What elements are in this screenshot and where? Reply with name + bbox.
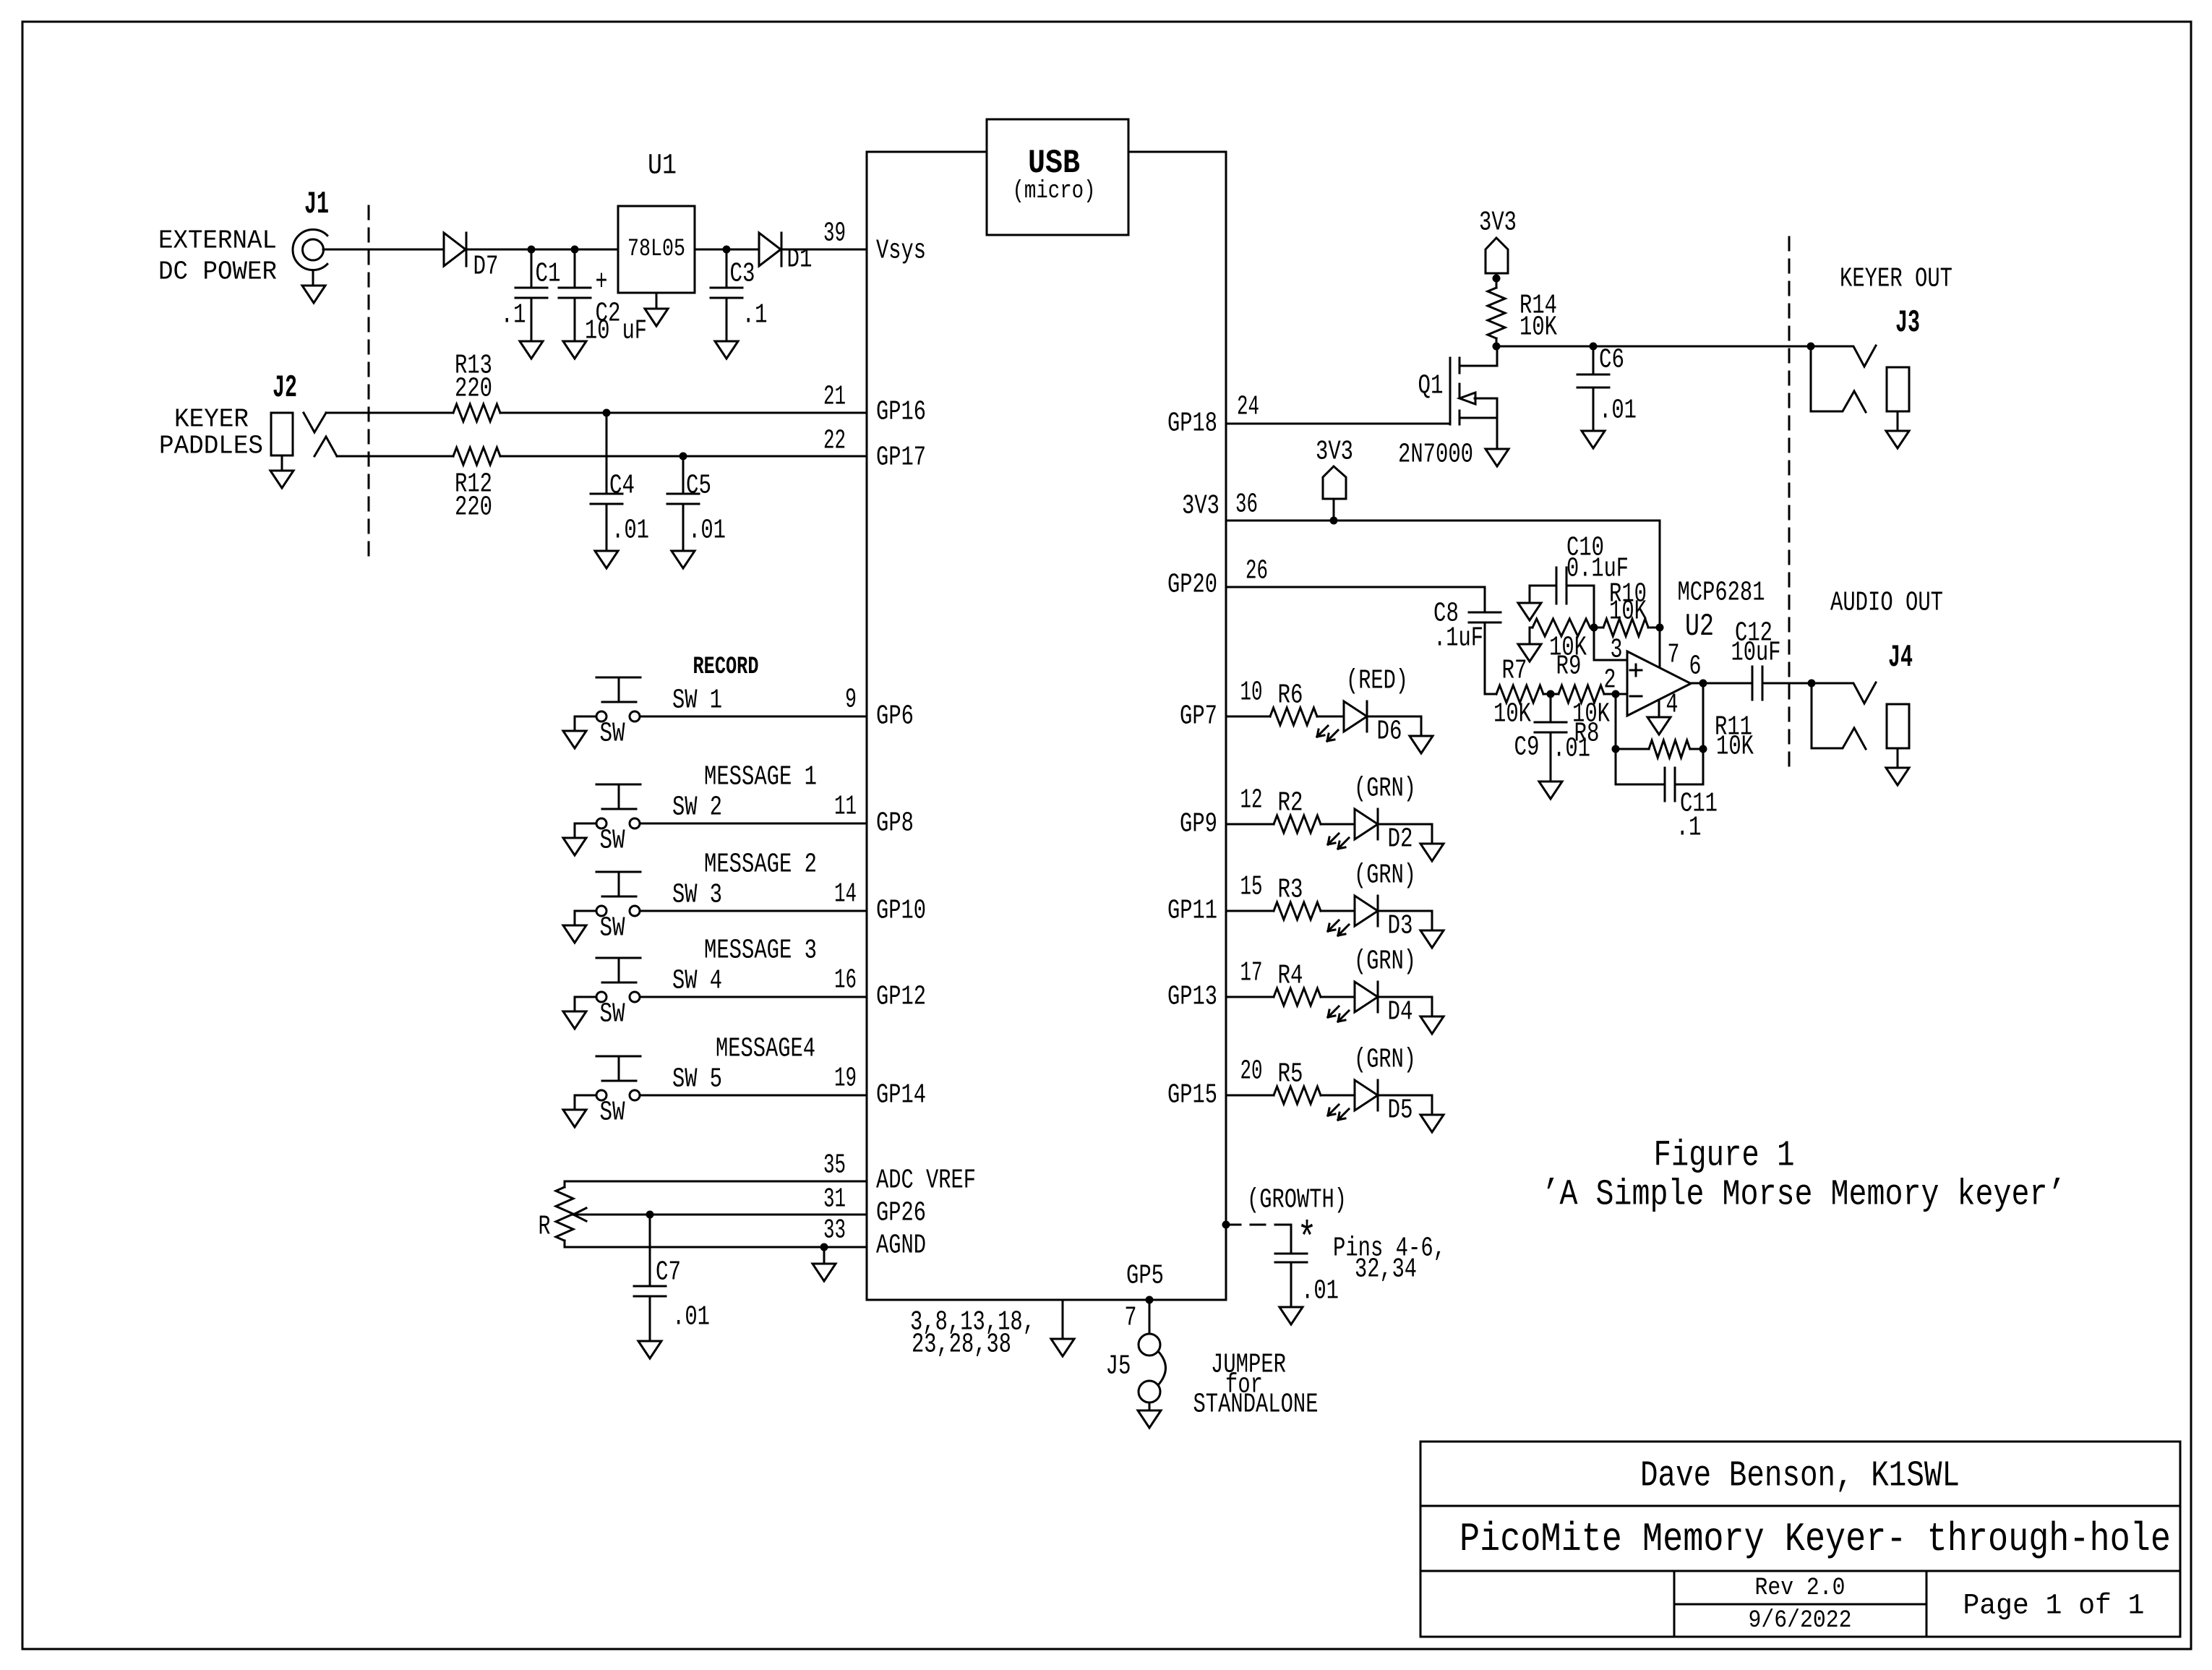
svg-text:D3: D3 [1388, 911, 1413, 942]
connector J2 plug body [271, 413, 293, 455]
ground left of R9 [1518, 628, 1541, 661]
junction node GP5 [1146, 1296, 1154, 1304]
svg-text:GP7: GP7 [1180, 701, 1217, 732]
svg-text:GP18: GP18 [1167, 408, 1217, 440]
connector J2 label [273, 370, 297, 406]
resistor R6 [1270, 680, 1317, 726]
label (GRN) for D4 [1354, 946, 1416, 977]
svg-text:DC POWER: DC POWER [158, 257, 277, 287]
svg-text:10: 10 [1240, 677, 1263, 708]
pin name GP18 [1167, 408, 1217, 440]
label KEYER PADDLES [159, 405, 263, 461]
svg-text:Page 1 of 1: Page 1 of 1 [1963, 1590, 2145, 1623]
junction node C3 [723, 246, 731, 254]
pin number 7 [1668, 640, 1680, 671]
pin number 6 [1689, 651, 1702, 682]
ground under C6 [1582, 431, 1605, 448]
junction node C1 [528, 246, 536, 254]
op-amp U2 [1627, 651, 1691, 716]
svg-text:R: R [539, 1212, 551, 1243]
svg-text:U1: U1 [648, 150, 677, 183]
wire D5 to ground [1378, 1095, 1432, 1115]
label GROWTH [1247, 1185, 1347, 1216]
regulator U1 78L05 box [618, 206, 695, 293]
svg-text:PADDLES: PADDLES [159, 432, 263, 461]
pin name 3V3 [1182, 491, 1219, 522]
wire SW3 to chip [640, 910, 867, 912]
pin number 20 [1240, 1056, 1263, 1087]
resistor R8 [1559, 685, 1610, 750]
svg-text:Figure 1: Figure 1 [1654, 1136, 1795, 1177]
junction node AGND ground [820, 1243, 828, 1251]
wire D7 to U1 [466, 249, 618, 251]
wire D1 to chip pin 39 [781, 249, 867, 251]
LED D3 [1328, 896, 1378, 935]
svg-text:3V3: 3V3 [1182, 491, 1219, 522]
svg-text:R5: R5 [1278, 1059, 1303, 1090]
wire J2 ring to R12 [337, 455, 453, 458]
svg-text:KEYER OUT: KEYER OUT [1840, 264, 1952, 295]
pin number 2 [1604, 665, 1616, 696]
label SW 3 [672, 880, 722, 911]
svg-text:9: 9 [845, 685, 857, 716]
wire AGND [565, 1246, 867, 1249]
svg-text:10K: 10K [1716, 732, 1754, 763]
svg-text:GP9: GP9 [1180, 809, 1217, 840]
svg-text:R9: R9 [1556, 651, 1582, 682]
svg-text:4: 4 [1666, 690, 1679, 721]
label D2 [1388, 824, 1413, 855]
label D3 [1388, 911, 1413, 942]
pin number 39 [823, 218, 846, 249]
wire D6 to ground [1367, 716, 1421, 736]
pin name GP13 [1167, 982, 1217, 1013]
svg-text:(GROWTH): (GROWTH) [1247, 1185, 1347, 1216]
figure caption line 2 [1542, 1175, 2066, 1216]
svg-text:GP26: GP26 [876, 1198, 926, 1229]
svg-text:SW: SW [600, 999, 625, 1030]
svg-text:39: 39 [823, 218, 846, 249]
label SW 1 [672, 685, 722, 716]
pin name Vsys [876, 236, 926, 267]
svg-text:GP17: GP17 [876, 442, 926, 474]
pin number 17 [1240, 958, 1263, 989]
svg-text:3V3: 3V3 [1479, 207, 1517, 239]
svg-text:14: 14 [834, 879, 857, 910]
label D5 [1388, 1095, 1413, 1126]
svg-text:32,34: 32,34 [1355, 1254, 1417, 1285]
svg-text:R6: R6 [1278, 680, 1303, 711]
svg-text:19: 19 [834, 1063, 857, 1095]
svg-text:24: 24 [1237, 392, 1259, 423]
wire SW2 to ground [575, 823, 596, 838]
svg-text:Rev 2.0: Rev 2.0 [1755, 1575, 1846, 1602]
svg-text:SW 1: SW 1 [672, 685, 722, 716]
svg-text:GP16: GP16 [876, 397, 926, 428]
pin name GP14 [876, 1080, 926, 1111]
ground under D5 [1420, 1115, 1444, 1132]
svg-text:0.1uF: 0.1uF [1566, 554, 1629, 585]
ground under D4 [1420, 1016, 1444, 1034]
pin number 12 [1240, 785, 1263, 816]
pushbutton switch SW2 [596, 784, 640, 828]
USB connector box [987, 119, 1128, 235]
pushbutton switch SW4 [596, 958, 640, 1002]
wire D2 to ground [1378, 824, 1432, 844]
pot wiper arrow wire GP26 [573, 1208, 867, 1221]
LED D4 [1328, 982, 1378, 1022]
pin name GP5 [1126, 1261, 1164, 1292]
wire GP5 to J5 [1149, 1300, 1151, 1334]
label MESSAGE4 [716, 1034, 815, 1065]
wire chip to R5 [1226, 1095, 1274, 1097]
pin number 11 [834, 792, 857, 823]
label (GRN) for D2 [1354, 774, 1416, 805]
wire R9 junction to opamp plus [1594, 628, 1627, 660]
USB label [1028, 145, 1080, 182]
wire opamp out to C12 [1691, 682, 1752, 685]
svg-text:GP12: GP12 [876, 982, 926, 1013]
pushbutton switch SW3 [596, 872, 640, 916]
chip ground pins label [910, 1307, 1035, 1361]
label JUMPER for STANDALONE [1193, 1350, 1319, 1421]
ground under J5 [1138, 1403, 1161, 1428]
title block [1420, 1442, 2180, 1637]
connector J4 jack contacts [1812, 682, 1876, 749]
svg-text:(GRN): (GRN) [1354, 946, 1416, 977]
wire R4 to D4 [1321, 996, 1355, 998]
LED D5 [1328, 1080, 1378, 1120]
capacitor C2 [559, 249, 647, 347]
svg-text:SW: SW [600, 826, 625, 857]
svg-text:R2: R2 [1278, 788, 1303, 819]
power symbol 3V3 top [1479, 207, 1517, 274]
svg-text:C7: C7 [656, 1257, 681, 1288]
svg-text:(micro): (micro) [1013, 178, 1096, 205]
svg-text:15: 15 [1240, 872, 1263, 903]
svg-text:.01: .01 [612, 515, 649, 547]
svg-text:J5: J5 [1106, 1351, 1131, 1382]
junction node C6 [1590, 343, 1598, 351]
regulator U1 label [648, 150, 677, 183]
jumper J5 [1139, 1334, 1166, 1403]
chip PicoMite module box [867, 152, 1226, 1300]
svg-text:MESSAGE 1: MESSAGE 1 [704, 762, 817, 793]
pin number 19 [834, 1063, 857, 1095]
svg-text:12: 12 [1240, 785, 1263, 816]
transistor Q1 [1398, 346, 1497, 471]
svg-text:C6: C6 [1599, 345, 1624, 376]
junction node C7 [646, 1211, 654, 1219]
resistor R11 [1616, 683, 1754, 763]
label SW under switch SW4 [600, 999, 625, 1030]
resistor R13 [453, 351, 500, 422]
svg-text:ADC VREF: ADC VREF [876, 1165, 976, 1196]
wire R3 to D3 [1321, 910, 1355, 912]
asterisk marker [1298, 1216, 1317, 1265]
wire R2 to D2 [1321, 823, 1355, 826]
svg-text:10K: 10K [1493, 699, 1531, 730]
ground left of C10 [1518, 586, 1541, 620]
wire chip to R2 [1226, 823, 1274, 826]
svg-text:R3: R3 [1278, 875, 1303, 906]
label SW under switch SW1 [600, 719, 625, 750]
svg-text:KEYER: KEYER [174, 405, 249, 434]
diode D1 [759, 233, 813, 275]
pin name ADC VREF [876, 1165, 976, 1196]
svg-text:23,28,38: 23,28,38 [912, 1329, 1011, 1361]
pin number 3 [1611, 635, 1623, 666]
svg-text:.01: .01 [1301, 1276, 1339, 1307]
label KEYER OUT [1840, 264, 1952, 295]
ground under C9 [1539, 782, 1562, 799]
svg-text:SW 4: SW 4 [672, 966, 722, 997]
svg-text:31: 31 [823, 1184, 846, 1215]
pushbutton switch SW1 [596, 677, 640, 721]
svg-text:D4: D4 [1388, 997, 1413, 1028]
svg-text:C9: C9 [1514, 732, 1540, 763]
wire R5 to D5 [1321, 1095, 1355, 1097]
connector J1 label [304, 187, 329, 223]
wire R13 to chip pin 21 [500, 412, 867, 414]
label MESSAGE 2 [704, 849, 817, 881]
ground under SW1 [563, 731, 586, 748]
svg-text:R8: R8 [1574, 719, 1600, 750]
title block title text [1459, 1516, 2171, 1562]
capacitor C3 [711, 249, 768, 341]
label SW under switch SW5 [600, 1097, 625, 1129]
title block date text [1749, 1607, 1852, 1635]
wire SW4 to chip [640, 996, 867, 998]
ground under C7 [638, 1341, 661, 1358]
pin number 22 [823, 426, 846, 457]
svg-text:*: * [1298, 1216, 1317, 1265]
svg-text:MESSAGE 3: MESSAGE 3 [704, 935, 817, 967]
svg-text:+: + [596, 267, 608, 299]
junction node C2 [571, 246, 579, 254]
svg-text:11: 11 [834, 792, 857, 823]
wire chip to R3 [1226, 910, 1274, 912]
svg-text:36: 36 [1235, 489, 1258, 521]
title block author text [1640, 1456, 1960, 1497]
svg-text:.01: .01 [1599, 395, 1637, 427]
pin number 35 [823, 1150, 846, 1181]
wire U1 to D1 [695, 249, 759, 251]
svg-text:GP10: GP10 [876, 896, 926, 927]
svg-text:D2: D2 [1388, 824, 1413, 855]
ground under SW3 [563, 925, 586, 943]
svg-text:.1uF: .1uF [1433, 623, 1483, 654]
svg-text:GP6: GP6 [876, 701, 914, 732]
svg-text:7: 7 [1668, 640, 1680, 671]
svg-text:STANDALONE: STANDALONE [1193, 1389, 1319, 1421]
svg-text:Dave Benson, K1SWL: Dave Benson, K1SWL [1640, 1456, 1960, 1497]
pin name GP12 [876, 982, 926, 1013]
pin number 24 [1237, 392, 1259, 423]
wire 3V3 rail [1226, 520, 1660, 522]
junction node R11 right [1699, 745, 1707, 753]
ground under C3 [715, 341, 738, 359]
svg-text:3V3: 3V3 [1316, 437, 1353, 468]
capacitor C12 [1731, 618, 1812, 701]
dashed wire GROWTH [1226, 1224, 1291, 1226]
resistor R12 [453, 448, 500, 523]
svg-text:SW: SW [600, 1097, 625, 1129]
capacitor C4 [591, 413, 649, 551]
pin name GP9 [1180, 809, 1217, 840]
pin name AGND [876, 1230, 926, 1262]
svg-text:SW 5: SW 5 [672, 1064, 722, 1095]
capacitor C10 [1530, 533, 1629, 628]
svg-text:26: 26 [1246, 556, 1268, 587]
svg-text:.1: .1 [1676, 813, 1702, 844]
connector J1 barrel jack [293, 230, 327, 270]
dashed partition line right [1788, 237, 1791, 768]
svg-text:D6: D6 [1377, 716, 1402, 748]
svg-text:RECORD: RECORD [693, 654, 759, 681]
pin name GP20 [1167, 570, 1217, 601]
svg-text:EXTERNAL: EXTERNAL [158, 226, 277, 256]
capacitor growth C13 [1275, 1225, 1307, 1307]
capacitor C7 [634, 1215, 710, 1341]
svg-text:SW: SW [600, 719, 625, 750]
junction node C5 on GP17 wire [680, 453, 687, 461]
ground under D3 [1420, 930, 1444, 948]
label SW 2 [672, 792, 722, 823]
ground under C2 [563, 341, 586, 359]
svg-text:220: 220 [455, 374, 492, 405]
junction node pin6 [1699, 680, 1707, 688]
pin number 16 [834, 965, 857, 996]
pin number 4 [1666, 690, 1679, 721]
svg-text:GP20: GP20 [1167, 570, 1217, 601]
pin number 15 [1240, 872, 1263, 903]
svg-text:C3: C3 [730, 259, 755, 290]
junction node J3 [1807, 343, 1815, 351]
capacitor C5 [667, 456, 726, 551]
pin number 33 [823, 1215, 846, 1246]
wire D4 to ground [1378, 997, 1432, 1016]
junction node R7 R8 [1547, 690, 1555, 698]
svg-text:SW 2: SW 2 [672, 792, 722, 823]
pin name GP10 [876, 896, 926, 927]
label EXTERNAL DC POWER [158, 226, 277, 287]
svg-text:GP13: GP13 [1167, 982, 1217, 1013]
svg-text:16: 16 [834, 965, 857, 996]
svg-text:J4: J4 [1888, 640, 1913, 676]
dashed partition line left [368, 206, 370, 565]
svg-text:J3: J3 [1895, 305, 1920, 341]
svg-text:MCP6281: MCP6281 [1678, 578, 1765, 609]
ground under growth cap [1279, 1307, 1303, 1324]
junction node under 3V3 [1493, 273, 1501, 288]
label Pins 4-6 32 34 [1333, 1233, 1446, 1285]
pin name GP11 [1167, 896, 1217, 927]
potentiometer R [539, 1181, 574, 1247]
label RECORD [693, 654, 759, 681]
svg-text:(GRN): (GRN) [1354, 860, 1416, 891]
connector J4 label [1888, 640, 1913, 676]
resistor R5 [1274, 1059, 1321, 1105]
capacitor C9 [1514, 694, 1591, 782]
junction node R10 3V3 [1656, 624, 1664, 632]
capacitor C6 [1577, 345, 1637, 432]
svg-text:PicoMite Memory Keyer- through: PicoMite Memory Keyer- through-hole [1459, 1516, 2171, 1562]
label SW 5 [672, 1064, 722, 1095]
wire D3 to ground [1378, 911, 1432, 930]
resistor R9 [1532, 619, 1590, 682]
svg-text:(GRN): (GRN) [1354, 1045, 1416, 1076]
svg-text:GP5: GP5 [1126, 1261, 1164, 1292]
wire R7 to R8 [1543, 693, 1559, 695]
pin number 21 [823, 382, 846, 413]
title block page text [1963, 1590, 2145, 1623]
J2 tip contact [304, 413, 326, 432]
svg-text:2N7000: 2N7000 [1398, 440, 1473, 471]
ground under C1 [520, 341, 543, 359]
svg-text:.1: .1 [501, 300, 526, 331]
svg-text:SW: SW [600, 913, 625, 944]
svg-text:21: 21 [823, 382, 846, 413]
pin number 14 [834, 879, 857, 910]
wire ADC VREF [565, 1181, 867, 1183]
pin name GP6 [876, 701, 914, 732]
ground under C4 [595, 551, 618, 568]
wire SW5 to ground [575, 1095, 596, 1110]
pin name GP7 [1180, 701, 1217, 732]
label (GRN) for D5 [1354, 1045, 1416, 1076]
wire R6 to D6 [1317, 716, 1344, 718]
ground at AGND [813, 1247, 836, 1281]
ground under J1 [302, 270, 325, 303]
pin number 10 [1240, 677, 1263, 708]
wire GP20 to C8 [1226, 587, 1485, 612]
ground under SW4 [563, 1011, 586, 1029]
svg-text:6: 6 [1689, 651, 1702, 682]
svg-text:.01: .01 [672, 1302, 710, 1333]
ground under J2 [270, 455, 293, 488]
label D4 [1388, 997, 1413, 1028]
label AUDIO OUT [1830, 588, 1943, 619]
svg-text:7: 7 [1125, 1303, 1137, 1334]
svg-text:10K: 10K [1609, 596, 1647, 628]
svg-text:R4: R4 [1278, 961, 1303, 992]
ground under J3 [1886, 411, 1909, 448]
resistor R3 [1274, 875, 1321, 920]
wire SW5 to chip [640, 1095, 867, 1097]
wire SW1 to chip [640, 716, 867, 718]
pin name GP15 [1167, 1080, 1217, 1111]
label SW under switch SW2 [600, 826, 625, 857]
title block rev text [1755, 1575, 1846, 1602]
wire J1 to D7 [323, 249, 444, 251]
svg-text:Q1: Q1 [1418, 371, 1444, 402]
svg-text:D5: D5 [1388, 1095, 1413, 1126]
junction node 3V3 rail [1330, 517, 1338, 525]
label SW 4 [672, 966, 722, 997]
ground under Q1 [1486, 449, 1509, 466]
ground under SW2 [563, 838, 586, 855]
pin number 31 [823, 1184, 846, 1215]
svg-text:(RED): (RED) [1346, 666, 1408, 697]
pin number 36 [1235, 489, 1258, 521]
svg-text:GP15: GP15 [1167, 1080, 1217, 1111]
svg-text:.1: .1 [742, 300, 768, 331]
capacitor C11 [1616, 749, 1718, 844]
svg-text:J2: J2 [273, 370, 297, 406]
svg-text:MESSAGE 2: MESSAGE 2 [704, 849, 817, 881]
svg-text:C5: C5 [686, 471, 711, 502]
